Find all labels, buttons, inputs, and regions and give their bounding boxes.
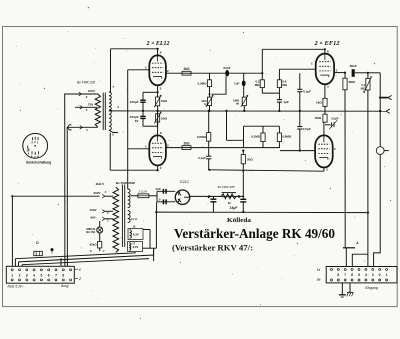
svg-text:82kΩ: 82kΩ — [90, 243, 98, 247]
filter choke Dr — [221, 193, 238, 210]
wire top rail right (EF12 V3 plate-cap rail) — [262, 48, 325, 50]
wire T1 pin3 drop — [109, 133, 111, 171]
capacitor 68nF — [350, 64, 368, 77]
svg-text:2 × EL12: 2 × EL12 — [145, 41, 169, 47]
svg-text:50nF: 50nF — [223, 66, 230, 70]
resistor 0,8M ch2 — [277, 126, 292, 147]
wire cathode V2 top — [143, 125, 158, 127]
svg-text:1 0,2A: 1 0,2A — [138, 190, 147, 194]
svg-text:0,5μF: 0,5μF — [331, 117, 339, 121]
label 2xEF12 — [313, 41, 339, 47]
tube V4 EF12 bottom — [315, 122, 333, 171]
svg-text:0,5MΩ: 0,5MΩ — [197, 135, 207, 139]
wire left bus b — [67, 127, 69, 266]
output jack 1 — [379, 95, 392, 99]
svg-text:Kölleda: Kölleda — [227, 217, 252, 224]
wire screen drop — [261, 88, 263, 94]
wire V3 chain — [324, 106, 326, 114]
label A — [356, 241, 359, 245]
svg-text:2: 2 — [379, 273, 381, 277]
svg-text:0,1μF: 0,1μF — [303, 90, 311, 94]
tap 4 — [68, 125, 98, 132]
resistor 2k ch1 — [182, 67, 191, 75]
output jack 2 fork at rail end — [379, 109, 390, 113]
label Sockelschaltung — [26, 161, 51, 165]
svg-text:50Ω: 50Ω — [161, 117, 167, 121]
label Eingang — [365, 286, 378, 290]
resistor 3M — [343, 73, 356, 90]
transformer T1 secondary winding — [95, 94, 100, 127]
capacitor 50uF ch2 — [238, 164, 246, 212]
wire 200V feed vertical — [11, 196, 13, 266]
svg-text:75V: 75V — [88, 103, 93, 107]
wire ground rail — [156, 211, 368, 214]
svg-text:E212: E212 — [180, 180, 188, 184]
resistor 2k ch2 — [182, 141, 191, 149]
wire rectifier B+ line — [190, 195, 244, 197]
capacitor 150uF 6V — [130, 111, 146, 126]
wire to jacks — [368, 72, 380, 74]
svg-text:1: 1 — [386, 273, 388, 277]
svg-text:2 × EF12: 2 × EF12 — [313, 41, 339, 47]
wire grid riser V2 — [127, 149, 129, 189]
svg-text:0,5μF: 0,5μF — [303, 127, 311, 131]
subtitle Verstaerker RKV 47 — [172, 244, 253, 253]
pin labels V2 — [145, 131, 169, 170]
svg-text:6,3V: 6,3V — [133, 245, 139, 249]
svg-text:0,1μF: 0,1μF — [198, 156, 206, 160]
svg-text:0,5MΩ: 0,5MΩ — [198, 81, 208, 85]
wire strip feeds — [15, 258, 61, 266]
capacitor 100uF — [130, 92, 146, 111]
svg-text:MΩ: MΩ — [255, 83, 260, 87]
svg-text:1μF: 1μF — [283, 100, 289, 104]
junction dots rectifier line — [208, 195, 244, 197]
wire anode rail channel 2 — [166, 147, 280, 149]
transformer T2 primary winding — [113, 187, 119, 253]
wire loop rail ch2 bottom — [227, 139, 244, 141]
wire top rail left (EL12 anode to output transformer) — [111, 48, 158, 50]
wire cathode V1 — [143, 91, 158, 93]
capacitor 15uF a — [208, 196, 217, 212]
potentiometer 50 ohm V1 — [154, 92, 167, 111]
junction dot D — [51, 248, 54, 253]
svg-text:6: 6 — [48, 273, 50, 277]
rectifier GBr box — [34, 241, 43, 256]
title Verstaerker-Anlage RK 49/60 — [174, 227, 335, 242]
svg-text:8: 8 — [62, 273, 64, 277]
transformer T1 bottom pin — [109, 130, 118, 136]
svg-text:2kΩ: 2kΩ — [183, 67, 190, 71]
transformer T1 primary upper — [109, 92, 111, 110]
svg-text:Bv FWK 228: Bv FWK 228 — [77, 81, 95, 85]
tube V2 EL12 bottom — [128, 111, 166, 170]
transformer T2 HT winding — [128, 189, 130, 208]
svg-text:Netz 6,3V~: Netz 6,3V~ — [8, 284, 24, 288]
wire screen riser — [261, 49, 263, 80]
rectifier E212 — [175, 190, 189, 204]
potentiometer 0,1M lg — [361, 73, 372, 94]
capacitor 50nF ch1 — [212, 66, 231, 94]
svg-text:7: 7 — [344, 273, 346, 277]
svg-text:50Ω: 50Ω — [247, 157, 253, 161]
resistor 0,1M ch2 — [251, 126, 265, 147]
ground symbol 2 — [347, 283, 354, 296]
potentiometer 50 ohm V2 — [154, 111, 167, 126]
resistor 0,5M ch1 — [198, 73, 212, 97]
svg-text:5nF: 5nF — [156, 187, 162, 191]
svg-text:2kΩ: 2kΩ — [316, 101, 322, 105]
label E terminal — [75, 268, 82, 272]
wire cathode line EL12 V2 — [110, 169, 157, 171]
svg-text:68nF: 68nF — [350, 64, 357, 68]
wire 200V tap line — [12, 195, 99, 197]
tap 200V — [93, 182, 113, 198]
svg-text:lg: lg — [204, 102, 207, 106]
capacitor 1nF — [234, 73, 246, 97]
svg-text:200V: 200V — [93, 191, 100, 195]
label E212 heater — [131, 217, 138, 221]
capacitor 0,1uF ch2 — [198, 141, 211, 170]
svg-text:lg: lg — [363, 90, 366, 94]
transformer T2 heater box 1 — [128, 225, 143, 240]
svg-text:5: 5 — [40, 273, 42, 277]
terminal strip left — [6, 266, 74, 283]
tap 90V T2 — [90, 215, 113, 222]
svg-text:lin: lin — [236, 102, 240, 106]
wire heater stub drop — [153, 248, 155, 261]
pin labels lamp — [90, 249, 105, 253]
svg-text:Sockelschaltung: Sockelschaltung — [26, 161, 51, 165]
svg-text:MΩ: MΩ — [282, 83, 287, 87]
wire grid line EF12 V4 — [280, 150, 315, 152]
svg-text:3MΩ: 3MΩ — [348, 80, 355, 84]
transformer T2 core — [122, 185, 124, 248]
tap 150V T2 — [89, 208, 113, 215]
svg-text:150V: 150V — [88, 89, 95, 93]
dial lamp — [97, 221, 103, 242]
svg-text:50Ω: 50Ω — [161, 99, 167, 103]
wire anode rail channel 1 — [166, 72, 262, 74]
wire loop rail ch2 top — [244, 125, 280, 127]
resistor 50 ohm ch2 — [241, 151, 253, 164]
svg-text:5: 5 — [358, 273, 360, 277]
resistor 0,5M ch2 — [197, 111, 211, 141]
svg-text:Bv FWK 488: Bv FWK 488 — [218, 185, 235, 189]
svg-text:2b: 2b — [316, 277, 321, 281]
wire left bus a — [65, 94, 79, 266]
tap 150V — [79, 89, 98, 99]
svg-text:6,3V: 6,3V — [133, 233, 139, 237]
wire screen link ch1 — [262, 92, 279, 94]
label Netz — [8, 284, 24, 288]
svg-text:7: 7 — [55, 273, 57, 277]
svg-text:2: 2 — [19, 273, 21, 277]
transformer T1 top pin — [109, 85, 115, 92]
wire B+ main rail — [109, 110, 386, 112]
antenna tbar — [343, 248, 355, 267]
wire ch2 loop drop — [243, 126, 245, 147]
jack circle — [376, 147, 388, 155]
svg-text:(Verstärker RKV 47/:: (Verstärker RKV 47/: — [172, 244, 253, 253]
tap 75V — [75, 103, 97, 113]
wire plate riser to T1 — [110, 49, 112, 92]
transformer T2 heater box 2 — [128, 241, 143, 251]
label 1a — [317, 267, 321, 271]
wire jumper 3 above left strip — [22, 259, 149, 265]
transformer T1 core — [103, 93, 105, 131]
svg-text:90V: 90V — [90, 215, 95, 219]
label Bv FWK 488 — [218, 185, 235, 189]
tube V1 EL12 top — [128, 49, 166, 93]
svg-text:Ausg: Ausg — [60, 284, 69, 288]
ground symbol 1 — [339, 283, 346, 297]
transformer T1 centre tap — [109, 105, 120, 110]
wire grid line EF12 V3 — [279, 68, 315, 70]
transformer T1 label — [77, 81, 95, 85]
label 2b — [316, 277, 321, 281]
svg-text:3: 3 — [26, 273, 28, 277]
resistor 0,2M — [255, 80, 265, 88]
transformer T1 primary lower — [109, 110, 111, 130]
svg-text:1a: 1a — [317, 267, 321, 271]
svg-text:150V: 150V — [89, 208, 96, 212]
pin labels V3 — [311, 50, 338, 89]
wire ch2 divider drop — [226, 111, 228, 140]
terminal strip right — [326, 267, 397, 283]
pin labels V1 — [145, 50, 169, 90]
potentiometer ch1 a — [201, 93, 213, 111]
wire right column jacks upper — [379, 73, 381, 147]
label E212 — [180, 180, 188, 184]
resistor 2k V3 — [316, 98, 327, 106]
wire jumper 1 above left strip — [15, 253, 136, 259]
svg-text:15μF: 15μF — [230, 206, 238, 210]
capacitor 0,5uF trimmer — [325, 117, 339, 130]
wire right column pot — [352, 90, 368, 267]
svg-text:4: 4 — [33, 273, 35, 277]
svg-text:1nF: 1nF — [234, 82, 240, 86]
svg-text:Verstärker-Anlage RK 49/60: Verstärker-Anlage RK 49/60 — [174, 227, 335, 242]
capacitor 1uF — [277, 88, 289, 111]
wire right column 3M — [344, 90, 346, 248]
svg-text:1MΩ: 1MΩ — [315, 116, 322, 120]
svg-text:0,1MΩ: 0,1MΩ — [251, 134, 261, 138]
svg-text:Eingang: Eingang — [365, 286, 378, 290]
heater wires — [143, 212, 157, 248]
svg-text:100μF: 100μF — [130, 100, 139, 104]
svg-text:6: 6 — [351, 273, 353, 277]
resistor 1M V3 — [315, 114, 327, 122]
potentiometer ch1 b — [233, 95, 248, 111]
socket diagram circle — [23, 133, 48, 159]
svg-text:BA 15d: BA 15d — [86, 230, 96, 234]
wire grid riser V1 — [127, 70, 129, 149]
fuse 0,2A — [130, 190, 157, 198]
wire anode out EF12 V3 — [334, 72, 345, 74]
svg-text:8: 8 — [337, 273, 339, 277]
capacitor 5nF pair — [156, 187, 176, 212]
svg-text:0,8MΩ: 0,8MΩ — [282, 134, 292, 138]
svg-text:4: 4 — [365, 273, 367, 277]
svg-text:3: 3 — [372, 273, 374, 277]
pin labels V4 — [326, 147, 336, 172]
capacitor 0,1uF ch1 — [297, 73, 311, 111]
tube V3 EF12 top — [316, 49, 334, 98]
label Bv FWK 252b — [116, 181, 135, 185]
transformer T2 winding 2 — [128, 211, 130, 223]
svg-text:2kΩ 5: 2kΩ 5 — [96, 182, 105, 186]
wire right column jacks lower — [374, 155, 381, 267]
svg-text:Bv FWK 252b: Bv FWK 252b — [116, 181, 135, 185]
wire jumper 2 above left strip — [19, 248, 154, 262]
wire common rail lower — [209, 170, 324, 171]
title Koelleda — [227, 217, 252, 224]
resistor 0,6M — [277, 69, 287, 87]
capacitor 0,5uF ch2 — [297, 111, 311, 150]
svg-text:E212: E212 — [131, 217, 138, 221]
label Z terminal — [75, 277, 82, 281]
label lamp — [86, 227, 96, 234]
label Ausg — [60, 284, 69, 288]
label 2xEL12 — [145, 41, 169, 47]
svg-text:2kΩ: 2kΩ — [183, 141, 190, 145]
svg-text:1: 1 — [11, 273, 13, 277]
resistor 82k lamp — [90, 242, 102, 252]
